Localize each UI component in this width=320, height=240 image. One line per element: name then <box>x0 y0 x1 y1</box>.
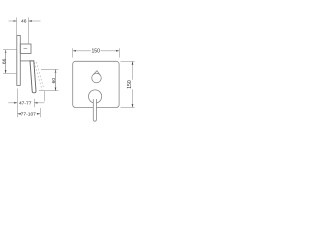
lever stem (front view) <box>93 99 96 121</box>
dim 150 right: bottom extension <box>121 107 135 109</box>
lever hub circle <box>89 90 102 103</box>
dim 150 right: top segment with arrow <box>132 62 134 80</box>
hub cartridge dash <box>24 48 28 50</box>
svg-text:66: 66 <box>1 58 7 64</box>
dim 150 top: right extension <box>118 48 120 57</box>
dim 47-77 left extension line <box>17 89 19 118</box>
side view trim plate <box>17 36 21 86</box>
dim 60 bottom extension line <box>39 90 59 92</box>
dim 46 right extension line <box>27 17 29 43</box>
lever neck line <box>20 60 30 62</box>
dim 47-77 right arrow with tail <box>35 102 45 104</box>
dim 47-77 left arrow <box>8 102 17 104</box>
dim 46 left extension line <box>16 17 18 35</box>
dim 150 top: left extension <box>72 48 74 57</box>
dim 60 vertical line with arrows <box>55 70 57 91</box>
extension line from dashed lever tip <box>44 91 46 102</box>
svg-text:150: 150 <box>127 80 133 89</box>
dim 77-107 right extension line <box>39 108 41 117</box>
dim 77-107 right inside arrow <box>36 113 40 115</box>
dim 66 top extension line <box>3 49 17 51</box>
dashed lever swung position line 2 <box>36 62 44 89</box>
dim 66 vertical line with arrows <box>5 50 7 73</box>
svg-text:47-77: 47-77 <box>19 100 32 106</box>
diverter drop circle <box>92 73 102 83</box>
dim 46 left arrow <box>9 20 17 22</box>
side view valve hub box <box>20 44 31 54</box>
dim 150 top: right segment with arrow <box>101 50 120 52</box>
dim 150 right: bottom segment with arrow <box>132 89 134 107</box>
svg-text:46: 46 <box>21 19 27 25</box>
dashed lever swung position line 1 <box>34 62 42 90</box>
dim 77-107 left inside arrow <box>18 113 22 115</box>
dim 46 right arrow <box>29 20 41 22</box>
lever bar (side view) <box>30 61 36 93</box>
dim 150 top: left segment with arrow <box>73 50 91 52</box>
dim 66 bottom extension line <box>3 72 17 74</box>
svg-text:150: 150 <box>91 49 100 55</box>
dim 47-77 right extension line <box>33 99 35 108</box>
dim 60 top extension line <box>41 68 58 70</box>
front view plate <box>73 61 119 107</box>
svg-text:60: 60 <box>51 78 57 84</box>
diverter drop point <box>93 71 100 76</box>
dim 150 right: top extension <box>121 60 135 62</box>
svg-text:77-107: 77-107 <box>21 111 37 117</box>
